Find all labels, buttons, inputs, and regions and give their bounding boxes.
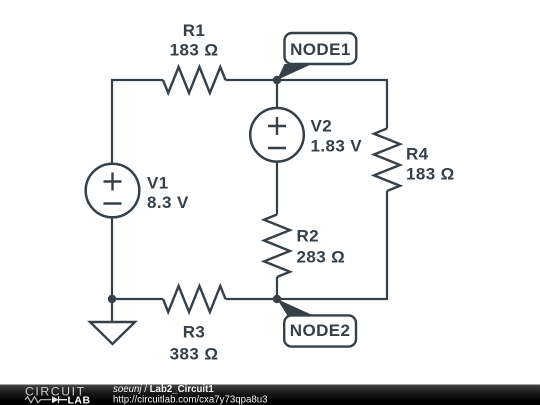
label R3 value 383 Ω [170,345,219,364]
label R1 value 183 Ω [170,41,219,60]
voltage source V1 (circle with + and -) [86,164,140,218]
svg-text:V1: V1 [147,174,169,193]
resistor R4 (zigzag body, right branch) [374,129,400,191]
wire: bottom horizontal, ground junction to R3 [112,298,163,300]
label R3 designator text [183,323,206,342]
wire: left vertical, top segment (top-left corner down to V1 top) [111,79,113,164]
resistor R3 (zigzag body) [163,286,225,312]
label R2 value 283 Ω [297,248,346,267]
footer bar background [0,385,540,405]
label V2 value 1.83 V [311,137,363,156]
CircuitLab logo: zigzag wire and diode glyph [25,396,67,403]
svg-text:383 Ω: 383 Ω [170,345,219,364]
wire: top horizontal, NODE1 junction to top-right corner [277,80,387,129]
svg-text:R2: R2 [297,227,320,246]
label R1 designator text [183,21,206,40]
label V2 designator text [311,117,333,136]
CircuitLab logo: LAB wordmark [68,395,91,405]
svg-text:http://circuitlab.com/cxa7y73q: http://circuitlab.com/cxa7y73qpa8u3 [113,394,268,405]
junction dot at ground node [108,295,116,303]
resistor R1 (zigzag body) [163,67,225,93]
CircuitLab logo: CIRCUIT wordmark [25,385,86,399]
wire: top horizontal, left lead into R1 [111,79,163,81]
wire: right vertical, R4 bottom down to bottom-right corner [277,191,387,299]
svg-text:R3: R3 [183,323,206,342]
svg-text:8.3 V: 8.3 V [147,193,189,212]
footer title line: soeunj / Lab2_Circuit1 [113,384,214,395]
svg-text:NODE1: NODE1 [290,40,351,59]
wire: R2 bottom lead to NODE2 junction [276,277,278,299]
label V1 designator text [147,174,169,193]
svg-text:1.83 V: 1.83 V [311,137,363,156]
svg-text:283 Ω: 283 Ω [297,248,346,267]
svg-text:R1: R1 [183,21,206,40]
junction dot at NODE1 [273,76,281,84]
svg-text:R4: R4 [406,145,429,164]
label R4 designator text [406,145,429,164]
svg-text:LAB: LAB [68,395,91,405]
svg-text:183 Ω: 183 Ω [170,41,219,60]
voltage source V2 (circle with + and -) [250,108,304,162]
wire: left vertical, bottom segment (V1 bottom down to bottom-left junction) [111,217,113,299]
ground symbol (stub and triangle) [90,299,135,344]
node NODE2 (callout flag with pointer) [277,299,356,347]
wire: top horizontal, R1 to NODE1 junction [226,79,278,81]
label V1 value 8.3 V [147,193,189,212]
wire: bottom horizontal, R3 to NODE2 junction [226,298,278,300]
footer URL line: http://circuitlab.com/cxa7y73qpa8u3 [113,394,268,405]
resistor R2 (zigzag body, middle branch) [264,215,290,278]
node NODE1 (callout flag with pointer) [277,33,356,80]
wire: V2 branch top lead (NODE1 junction down to V2) [276,80,278,108]
junction dot at NODE2 [273,295,281,303]
label R4 value 183 Ω [406,165,455,184]
svg-text:183 Ω: 183 Ω [406,165,455,184]
wire: V2 bottom to R2 top lead [276,162,278,215]
svg-text:V2: V2 [311,117,333,136]
svg-text:NODE2: NODE2 [290,321,351,340]
label R2 designator text [297,227,320,246]
